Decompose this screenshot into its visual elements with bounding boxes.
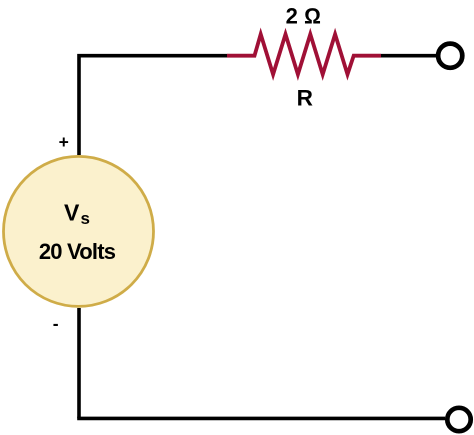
bottom wire rail (77, 417, 445, 421)
terminal node top-right (open circle) (438, 44, 462, 68)
svg-text:-: - (53, 314, 59, 334)
wire top-left: vertical drop + top horizontal run (79, 56, 227, 155)
wire from source bottom to bottom rail (77, 308, 81, 418)
voltage source Vs (circle symbol) (4, 156, 154, 306)
svg-text:20 Volts: 20 Volts (39, 239, 116, 264)
terminal node bottom-right (open circle) (447, 408, 470, 431)
svg-text:R: R (297, 85, 313, 110)
svg-text:2 Ω: 2 Ω (286, 4, 321, 29)
wire from resistor to top terminal (381, 54, 437, 58)
resistor R (2 ohm) zigzag (227, 34, 381, 74)
svg-text:+: + (59, 132, 69, 152)
